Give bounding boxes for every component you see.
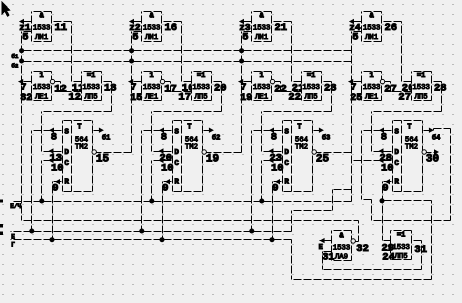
ЛЕ1 U2.2 inversion bubble [160, 79, 164, 83]
XOR gate U2.3 1533ЛП5 [192, 72, 212, 101]
svg-text:1: 1 [39, 72, 43, 80]
svg-text:16: 16 [165, 22, 178, 34]
wire: S riser cell 3 down to net Е line [251, 131, 253, 232]
svg-text:1: 1 [369, 72, 373, 80]
svg-text:ЛП5: ЛП5 [395, 253, 408, 261]
svg-text:ЛЕ1: ЛЕ1 [35, 93, 49, 101]
NOR gate U2.2 1533ЛЕ1 [142, 72, 162, 101]
ЛЕ1 U3.2 input wire net 19 [239, 81, 252, 83]
svg-text:22: 22 [274, 83, 287, 95]
ЛЕ1 U3.2 inversion bubble [270, 79, 274, 83]
svg-text:C: C [394, 160, 399, 168]
svg-text:7: 7 [21, 82, 27, 93]
D flip-flop U1.4 564ТМ2 [63, 121, 93, 192]
svg-text:10: 10 [51, 162, 64, 174]
svg-text:1533: 1533 [192, 84, 210, 92]
AND U3.1 input pin 2 wire from bus [242, 31, 252, 33]
svg-text:1533: 1533 [363, 25, 381, 33]
svg-text:R: R [394, 179, 399, 187]
ЛЕ1 U2.2 input wire net 15 [129, 81, 142, 83]
svg-text:ЛИ1: ЛИ1 [35, 34, 49, 42]
XOR U1.3 output wire net 13 to D input [102, 81, 112, 83]
svg-text:5: 5 [132, 32, 138, 44]
svg-text:ЛИ1: ЛИ1 [145, 34, 159, 42]
svg-text:1533: 1533 [412, 84, 430, 92]
ЛА9 U5 inversion bubble [351, 239, 355, 243]
svg-text:8: 8 [51, 132, 57, 144]
wire: left vertical net chain cell 1 [21, 32, 23, 221]
svg-text:T: T [407, 124, 411, 132]
XOR U2.3 output wire net 20 to D input [212, 81, 222, 83]
wire: vertical riser cell 3 (bus taps + ЛЕ1 input from net 19) [241, 32, 243, 153]
ЛЕ1 U1.2 output wire net 12 [55, 81, 61, 83]
AND gate U1.1 1533ЛИ1 [32, 12, 52, 42]
svg-text:ТМ2: ТМ2 [185, 144, 198, 152]
svg-text:17: 17 [164, 83, 177, 95]
svg-text:10: 10 [161, 162, 174, 174]
ЛП5 U6 input 1 wire net 9 [382, 240, 391, 242]
AND U4.1 output wire net 26 [382, 21, 402, 23]
svg-text:25: 25 [316, 153, 330, 165]
junction dot [270, 237, 275, 242]
TM2 U4.4 C input wire net 10 [352, 160, 393, 162]
clipped mark at left edge 1 [0, 199, 3, 202]
svg-text:26: 26 [385, 22, 398, 34]
ЛА9 U5 input 1 wire net Е [320, 240, 332, 242]
TM2 U1.4 S input wire net 8 [32, 130, 63, 132]
AND U3.1 input pin 1 wire [240, 21, 252, 23]
svg-text:ЛП5: ЛП5 [195, 93, 208, 101]
svg-text:б3: б3 [322, 133, 330, 142]
XOR gate U6 1533ЛП5 [391, 231, 412, 260]
svg-text:S: S [174, 128, 179, 136]
AND U2.1 input pin 2 wire from bus [132, 31, 142, 33]
TM2 U3.4 C input wire net 10 [262, 160, 283, 162]
wire: R riser cell 2 down to net 9 line [162, 182, 164, 240]
svg-text:9: 9 [272, 183, 278, 195]
svg-text:7: 7 [241, 82, 247, 93]
AND U1.1 input pin 2 wire from bus [22, 31, 32, 33]
wire: Q-bar net 15 to next cell [97, 152, 132, 154]
XOR U4.3 output wire net 28 to D input [432, 81, 442, 83]
svg-text:T: T [187, 124, 191, 132]
D flip-flop U4.4 564ТМ2 [393, 121, 423, 192]
TM2 U4.4 Q output arrow net б4 [423, 130, 430, 132]
wire: C riser cell 1 to clock line [41, 161, 43, 202]
ЛЕ1 U1.2 inversion bubble [50, 79, 54, 83]
junction dot [39, 199, 44, 204]
wire: C riser cell 3 to clock line [261, 161, 263, 202]
wire: S riser cell 2 down to net Е line [141, 131, 143, 232]
ЛЕ1 U4.2 input wire net 25 [349, 81, 362, 83]
svg-text:T: T [77, 124, 81, 132]
svg-text:R: R [64, 179, 69, 187]
ЛЕ1 U2.2 output wire net 17 [165, 81, 171, 83]
svg-text:ЛП5: ЛП5 [415, 93, 428, 101]
svg-text:Е: Е [319, 244, 323, 252]
AND gate U4.1 1533ЛИ1 [362, 12, 382, 42]
svg-text:1: 1 [149, 72, 153, 80]
svg-text:S: S [284, 128, 289, 136]
svg-text:31: 31 [414, 244, 427, 256]
wire: Q-bar net 25 to next cell [317, 152, 352, 154]
AND U4.1 input pin 1 wire [350, 21, 362, 23]
TM2 U2.4 inverted output bubble [202, 150, 206, 154]
wire: R riser cell 1 down to net 9 line [52, 182, 54, 240]
junction dot [29, 229, 34, 234]
svg-text:S: S [394, 128, 399, 136]
svg-text:ТМ2: ТМ2 [405, 144, 418, 152]
svg-text:ТМ2: ТМ2 [75, 144, 88, 152]
svg-text:б2: б2 [212, 133, 220, 142]
svg-text:1533: 1533 [253, 25, 271, 33]
svg-text:б1: б1 [11, 53, 18, 60]
XOR U3.3 output wire net 23 to D input [322, 81, 332, 83]
TM2 U1.4 R input wire net 9 [53, 181, 63, 183]
svg-text:C: C [284, 160, 289, 168]
ЛП5 U6 output wire net 31 [412, 240, 422, 242]
AND U1.1 output wire net 11 [52, 21, 72, 23]
TM2 U4.4 inverted output bubble [422, 150, 426, 154]
bus б1 horizontal wire net 5 [22, 50, 352, 52]
D flip-flop U2.4 564ТМ2 [173, 121, 203, 192]
svg-text:1533: 1533 [253, 84, 271, 92]
net б4 feedback wire from Q4 to S4 [433, 129, 435, 131]
junction dot [259, 199, 264, 204]
svg-text:б4: б4 [432, 133, 440, 142]
svg-text:8: 8 [271, 132, 277, 144]
svg-text:C: C [174, 160, 179, 168]
svg-text:9: 9 [52, 183, 58, 195]
clipped mark at left edge 2 [0, 224, 3, 228]
ЛП5 U6 input 2 stub [386, 250, 391, 252]
TM2 U2.4 Q output arrow net б2 [203, 130, 210, 132]
svg-text:23: 23 [324, 82, 337, 94]
wire: S riser cell 1 down to net Е line [31, 131, 33, 232]
TM2 U4.4 R input wire net 9 [383, 181, 393, 183]
svg-text:1533: 1533 [82, 84, 100, 92]
svg-text:9: 9 [162, 183, 168, 195]
TM2 U1.4 inverted output bubble [92, 150, 96, 154]
svg-text:S: S [64, 128, 69, 136]
svg-text:1533: 1533 [143, 25, 161, 33]
TM2 U3.4 inverted output bubble [312, 150, 316, 154]
AND gate U3.1 1533ЛИ1 [252, 12, 272, 42]
svg-text:ЛИ1: ЛИ1 [255, 34, 269, 42]
svg-text:D: D [284, 149, 289, 157]
svg-text:27: 27 [398, 92, 411, 104]
NAND gate U5 1533ЛА9 [332, 231, 352, 261]
svg-text:17: 17 [178, 92, 191, 104]
svg-text:15: 15 [96, 153, 110, 165]
svg-text:24: 24 [382, 252, 395, 264]
NOR gate U3.2 1533ЛЕ1 [252, 72, 272, 101]
wire: vertical riser cell 2 (bus taps + ЛЕ1 input from net 15) [131, 32, 133, 153]
NOR gate U1.2 1533ЛЕ1 [32, 72, 52, 101]
svg-text:21: 21 [275, 22, 288, 34]
AND U3.1 output wire net 21 [272, 21, 292, 23]
junction dot [50, 237, 55, 242]
svg-text:C: C [64, 160, 69, 168]
junction dots on bus б1 [19, 48, 24, 53]
svg-text:10: 10 [271, 162, 284, 174]
svg-text:ТМ2: ТМ2 [295, 144, 308, 152]
svg-text:15: 15 [130, 93, 142, 104]
svg-text:=1: =1 [397, 232, 405, 240]
svg-text:1533: 1533 [302, 84, 320, 92]
AND gate U2.1 1533ЛИ1 [142, 12, 162, 42]
wire: Q-bar net 30 output arrow [427, 152, 435, 154]
ЛА9 U5 input 2 wire net 31 [323, 251, 332, 253]
svg-text:ЛИ1: ЛИ1 [365, 34, 379, 42]
net Е (8) horizontal wire [11, 231, 292, 233]
ЛЕ1 U1.2 input wire net 32 [19, 81, 32, 83]
svg-text:1533: 1533 [363, 84, 381, 92]
TM2 U3.4 R input wire net 9 [273, 181, 283, 183]
mouse cursor [2, 1, 11, 17]
wire: S riser cell 4 with jog to б4 line [361, 131, 363, 200]
svg-text:8: 8 [381, 132, 387, 144]
svg-text:8: 8 [161, 132, 167, 144]
svg-text:10: 10 [381, 162, 394, 174]
svg-text:19: 19 [206, 153, 219, 165]
svg-text:11: 11 [55, 22, 68, 34]
TM2 U3.4 Q output arrow net б3 [313, 130, 320, 132]
junction dot [160, 237, 165, 242]
svg-text:ЛЕ1: ЛЕ1 [255, 93, 269, 101]
svg-text:32: 32 [20, 93, 32, 104]
TM2 U4.4 S input wire net 8 [362, 130, 393, 132]
junction dot [139, 229, 144, 234]
junction dot [149, 199, 154, 204]
TM2 U2.4 C input wire net 10 [152, 160, 173, 162]
XOR gate U4.3 1533ЛП5 [412, 72, 432, 101]
svg-text:D: D [64, 149, 69, 157]
svg-text:12: 12 [54, 83, 67, 95]
TM2 U1.4 Q output arrow net б1 [93, 130, 100, 132]
net 9 horizontal wire [11, 239, 292, 241]
svg-text:32: 32 [356, 243, 369, 255]
svg-text:20: 20 [214, 82, 227, 94]
TM2 U2.4 R input wire net 9 [163, 181, 173, 183]
svg-text:ЛЕ1: ЛЕ1 [365, 93, 379, 101]
net 32 horizontal wire to ЛА9 output [22, 220, 359, 222]
svg-text:13: 13 [104, 82, 117, 94]
svg-text:=1: =1 [417, 72, 425, 80]
AND U2.1 input pin 1 wire [130, 21, 142, 23]
wire: Q-bar net 19 to next cell [207, 152, 242, 154]
svg-text:б2: б2 [11, 62, 18, 69]
clipped mark at left edge 3 [0, 232, 3, 235]
svg-text:D: D [174, 149, 179, 157]
svg-text:1533: 1533 [143, 84, 161, 92]
wire: C riser cell 2 to clock line [151, 161, 153, 202]
svg-text:22: 22 [288, 92, 301, 104]
svg-text:б1: б1 [102, 133, 110, 142]
XOR gate U1.3 1533ЛП5 [82, 72, 102, 101]
svg-text:31: 31 [322, 253, 334, 264]
AND U4.1 input pin 2 wire from bus [352, 31, 362, 33]
bus б2 horizontal wire [22, 61, 352, 63]
svg-text:R: R [284, 179, 289, 187]
TM2 U2.4 S input wire net 8 [142, 130, 173, 132]
svg-text:1533: 1533 [33, 84, 51, 92]
junction dot on net 9 branch [380, 198, 385, 203]
svg-text:5: 5 [242, 32, 248, 44]
svg-text:19: 19 [240, 93, 252, 104]
wire: R riser cell 4 down to bottom XOR input [382, 182, 384, 241]
wire: R riser cell 3 down to net 9 line [272, 182, 274, 240]
NOR gate U4.2 1533ЛЕ1 [362, 72, 382, 101]
svg-text:ЛЕ1: ЛЕ1 [145, 93, 159, 101]
XOR gate U3.3 1533ЛП5 [302, 72, 322, 101]
svg-text:25: 25 [350, 93, 362, 104]
wire: vertical riser cell 4 (bus ends, ЛЕ1 input, C feed) [351, 32, 353, 202]
svg-text:7: 7 [351, 82, 357, 93]
svg-text:ЛА9: ЛА9 [335, 254, 348, 262]
svg-text:Г: Г [11, 241, 15, 248]
svg-text:28: 28 [434, 82, 447, 94]
svg-text:1533: 1533 [333, 245, 351, 253]
svg-text:1: 1 [259, 72, 263, 80]
svg-text:1533: 1533 [392, 244, 410, 252]
svg-text:=1: =1 [197, 72, 205, 80]
svg-text:12: 12 [68, 92, 81, 104]
junction dot [249, 229, 254, 234]
ЛЕ1 U3.2 output wire net 22 [275, 81, 281, 83]
TM2 U3.4 S input wire net 8 [252, 130, 283, 132]
svg-text:27: 27 [384, 83, 397, 95]
svg-text:Е/Ч: Е/Ч [10, 203, 21, 210]
svg-text:5: 5 [22, 32, 28, 44]
TM2 U1.4 C input wire net 10 [42, 160, 63, 162]
junction dots on bus б2 [19, 59, 24, 64]
clock line net 10 Е/Ч horizontal wire [12, 201, 352, 203]
svg-text:ЛП5: ЛП5 [85, 93, 98, 101]
AND U1.1 input pin 1 wire [20, 21, 32, 23]
svg-text:5: 5 [352, 32, 358, 44]
svg-text:30: 30 [426, 153, 439, 165]
svg-text:ЛП5: ЛП5 [305, 93, 318, 101]
svg-text:R: R [174, 179, 179, 187]
svg-text:D: D [394, 149, 399, 157]
ЛЕ1 U4.2 output wire net 27 [385, 81, 391, 83]
svg-text:=1: =1 [87, 72, 95, 80]
svg-text:9: 9 [382, 183, 388, 195]
svg-text:=1: =1 [307, 72, 315, 80]
svg-text:1533: 1533 [33, 25, 51, 33]
svg-text:T: T [297, 124, 301, 132]
D flip-flop U3.4 564ТМ2 [283, 121, 313, 192]
svg-text:7: 7 [131, 82, 137, 93]
AND U2.1 output wire net 16 [162, 21, 182, 23]
ЛЕ1 U4.2 inversion bubble [380, 79, 384, 83]
